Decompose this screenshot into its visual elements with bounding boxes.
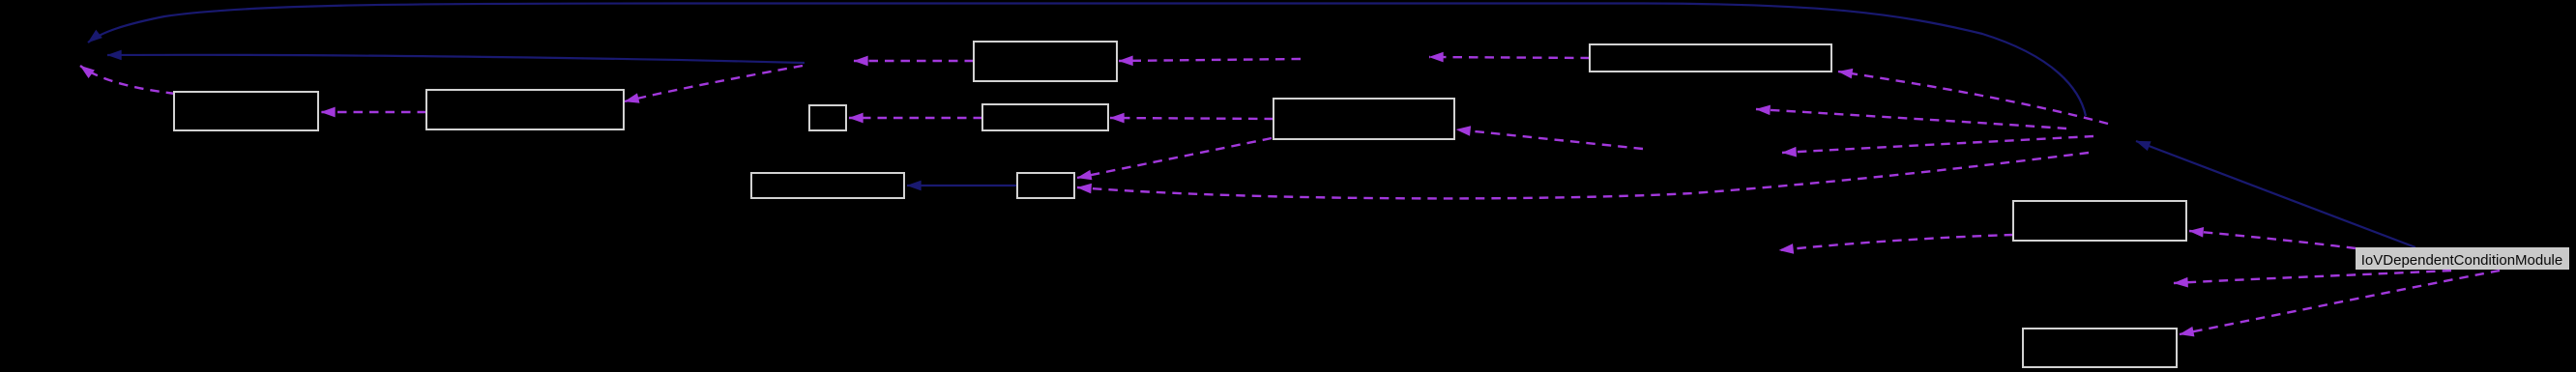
- svg-text:IoVDependentConditionModule: IoVDependentConditionModule: [2361, 252, 2562, 269]
